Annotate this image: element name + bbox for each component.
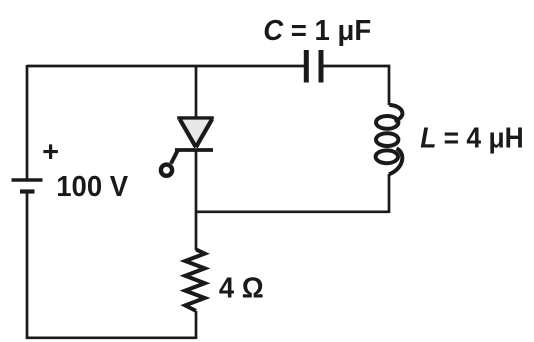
wire SCR anode branch <box>195 65 198 118</box>
SCR triangle left side <box>180 119 196 147</box>
SCR triangle fill <box>180 120 213 147</box>
svg-text:100 V: 100 V <box>56 171 129 203</box>
inductor bottom hook <box>389 149 402 175</box>
inductor loop 1 <box>376 116 398 129</box>
SCR cathode bar <box>175 148 213 152</box>
wire left side lower and bottom wire <box>27 194 196 338</box>
capacitor left plate <box>304 50 309 83</box>
wire capacitor to top-right corner and down to inductor <box>324 66 390 105</box>
SCR triangle top edge <box>177 116 214 119</box>
svg-text:C = 1 μF: C = 1 μF <box>263 15 371 47</box>
wire top from battery to capacitor <box>27 65 304 68</box>
wire inductor bottom to middle wire <box>388 174 391 213</box>
svg-text:L = 4 μH: L = 4 μH <box>420 123 524 155</box>
battery long plate (+) <box>12 178 43 181</box>
inductor loop 3 <box>376 150 398 163</box>
battery short plate (-) <box>20 189 35 193</box>
inductor top hook <box>389 105 402 121</box>
resistor zigzag <box>185 249 205 311</box>
SCR gate terminal circle <box>161 165 172 176</box>
SCR gate lead <box>171 150 178 164</box>
wire middle horizontal (cathode node to inductor bottom) <box>196 210 389 213</box>
wire left side upper (battery to top wire) <box>26 65 29 179</box>
svg-text:+: + <box>42 137 59 169</box>
wire SCR cathode down to resistor <box>195 151 198 250</box>
capacitor right plate <box>319 50 324 83</box>
svg-text:4 Ω: 4 Ω <box>219 273 264 305</box>
SCR triangle right side <box>196 119 212 147</box>
wire resistor bottom <box>195 311 198 339</box>
inductor loop 2 <box>376 133 398 146</box>
